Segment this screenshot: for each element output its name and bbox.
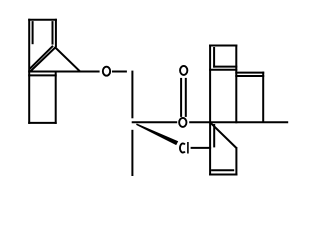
ring4 top double bond line 2 xyxy=(235,75,264,77)
atom label Cl : letter l xyxy=(187,142,189,154)
ring3 left double-bond inner line xyxy=(213,47,215,68)
ring1 diagonal double bond outer line xyxy=(30,47,56,72)
ring4 right vertical bond xyxy=(262,72,264,123)
ring3 top edge bond xyxy=(209,45,237,47)
ring5 bottom edge bond xyxy=(209,174,237,176)
ring5 bottom double-bond inner line xyxy=(211,169,234,171)
ring5 left double-bond inner line xyxy=(213,124,215,147)
wedge bond to Cl xyxy=(136,124,178,146)
ring2 right vertical bond xyxy=(55,72,57,124)
long horizontal bond to ether O xyxy=(28,71,99,73)
right structure left vertical bond xyxy=(209,45,211,176)
atom label Cl : letter C xyxy=(180,143,185,152)
ring3 bottom edge bond xyxy=(209,69,237,71)
ring2 top double-bond inner line xyxy=(28,74,57,76)
ring5 right vertical bond xyxy=(235,147,237,176)
ring3 right vertical bond xyxy=(235,45,237,124)
ring3 bottom double-bond inner line xyxy=(213,66,237,68)
ring2 bottom edge bond xyxy=(28,122,57,124)
bridge diagonal bond to chain xyxy=(55,48,80,72)
bond carbon to ester O xyxy=(132,121,178,123)
ring1 top edge bond xyxy=(28,19,57,21)
carbonyl C=O double bond line 1 xyxy=(180,78,182,117)
vertical chain bond below stereocenter xyxy=(131,130,133,176)
ring1 left double-bond inner line xyxy=(32,21,34,44)
ring1 left vertical bond xyxy=(28,19,30,124)
ring1 right vertical bond (double) xyxy=(55,19,57,47)
carbonyl C=O double bond line 2 xyxy=(185,78,187,117)
bond ester O to right ring xyxy=(189,121,288,123)
ring1 diagonal double bond inner line xyxy=(30,46,53,69)
vertical chain bond above stereocenter xyxy=(131,71,133,119)
ring5 diagonal bond xyxy=(211,123,236,148)
ring4 top double bond line 1 xyxy=(235,72,264,74)
atom label O (carbonyl) xyxy=(180,66,187,75)
ring1 right double-bond inner line xyxy=(52,21,54,44)
bond ether O to chain right xyxy=(112,71,127,73)
atom label O (ester) xyxy=(179,118,186,127)
atom label O (ether) xyxy=(103,67,110,76)
bond Cl to right ring xyxy=(191,147,212,149)
